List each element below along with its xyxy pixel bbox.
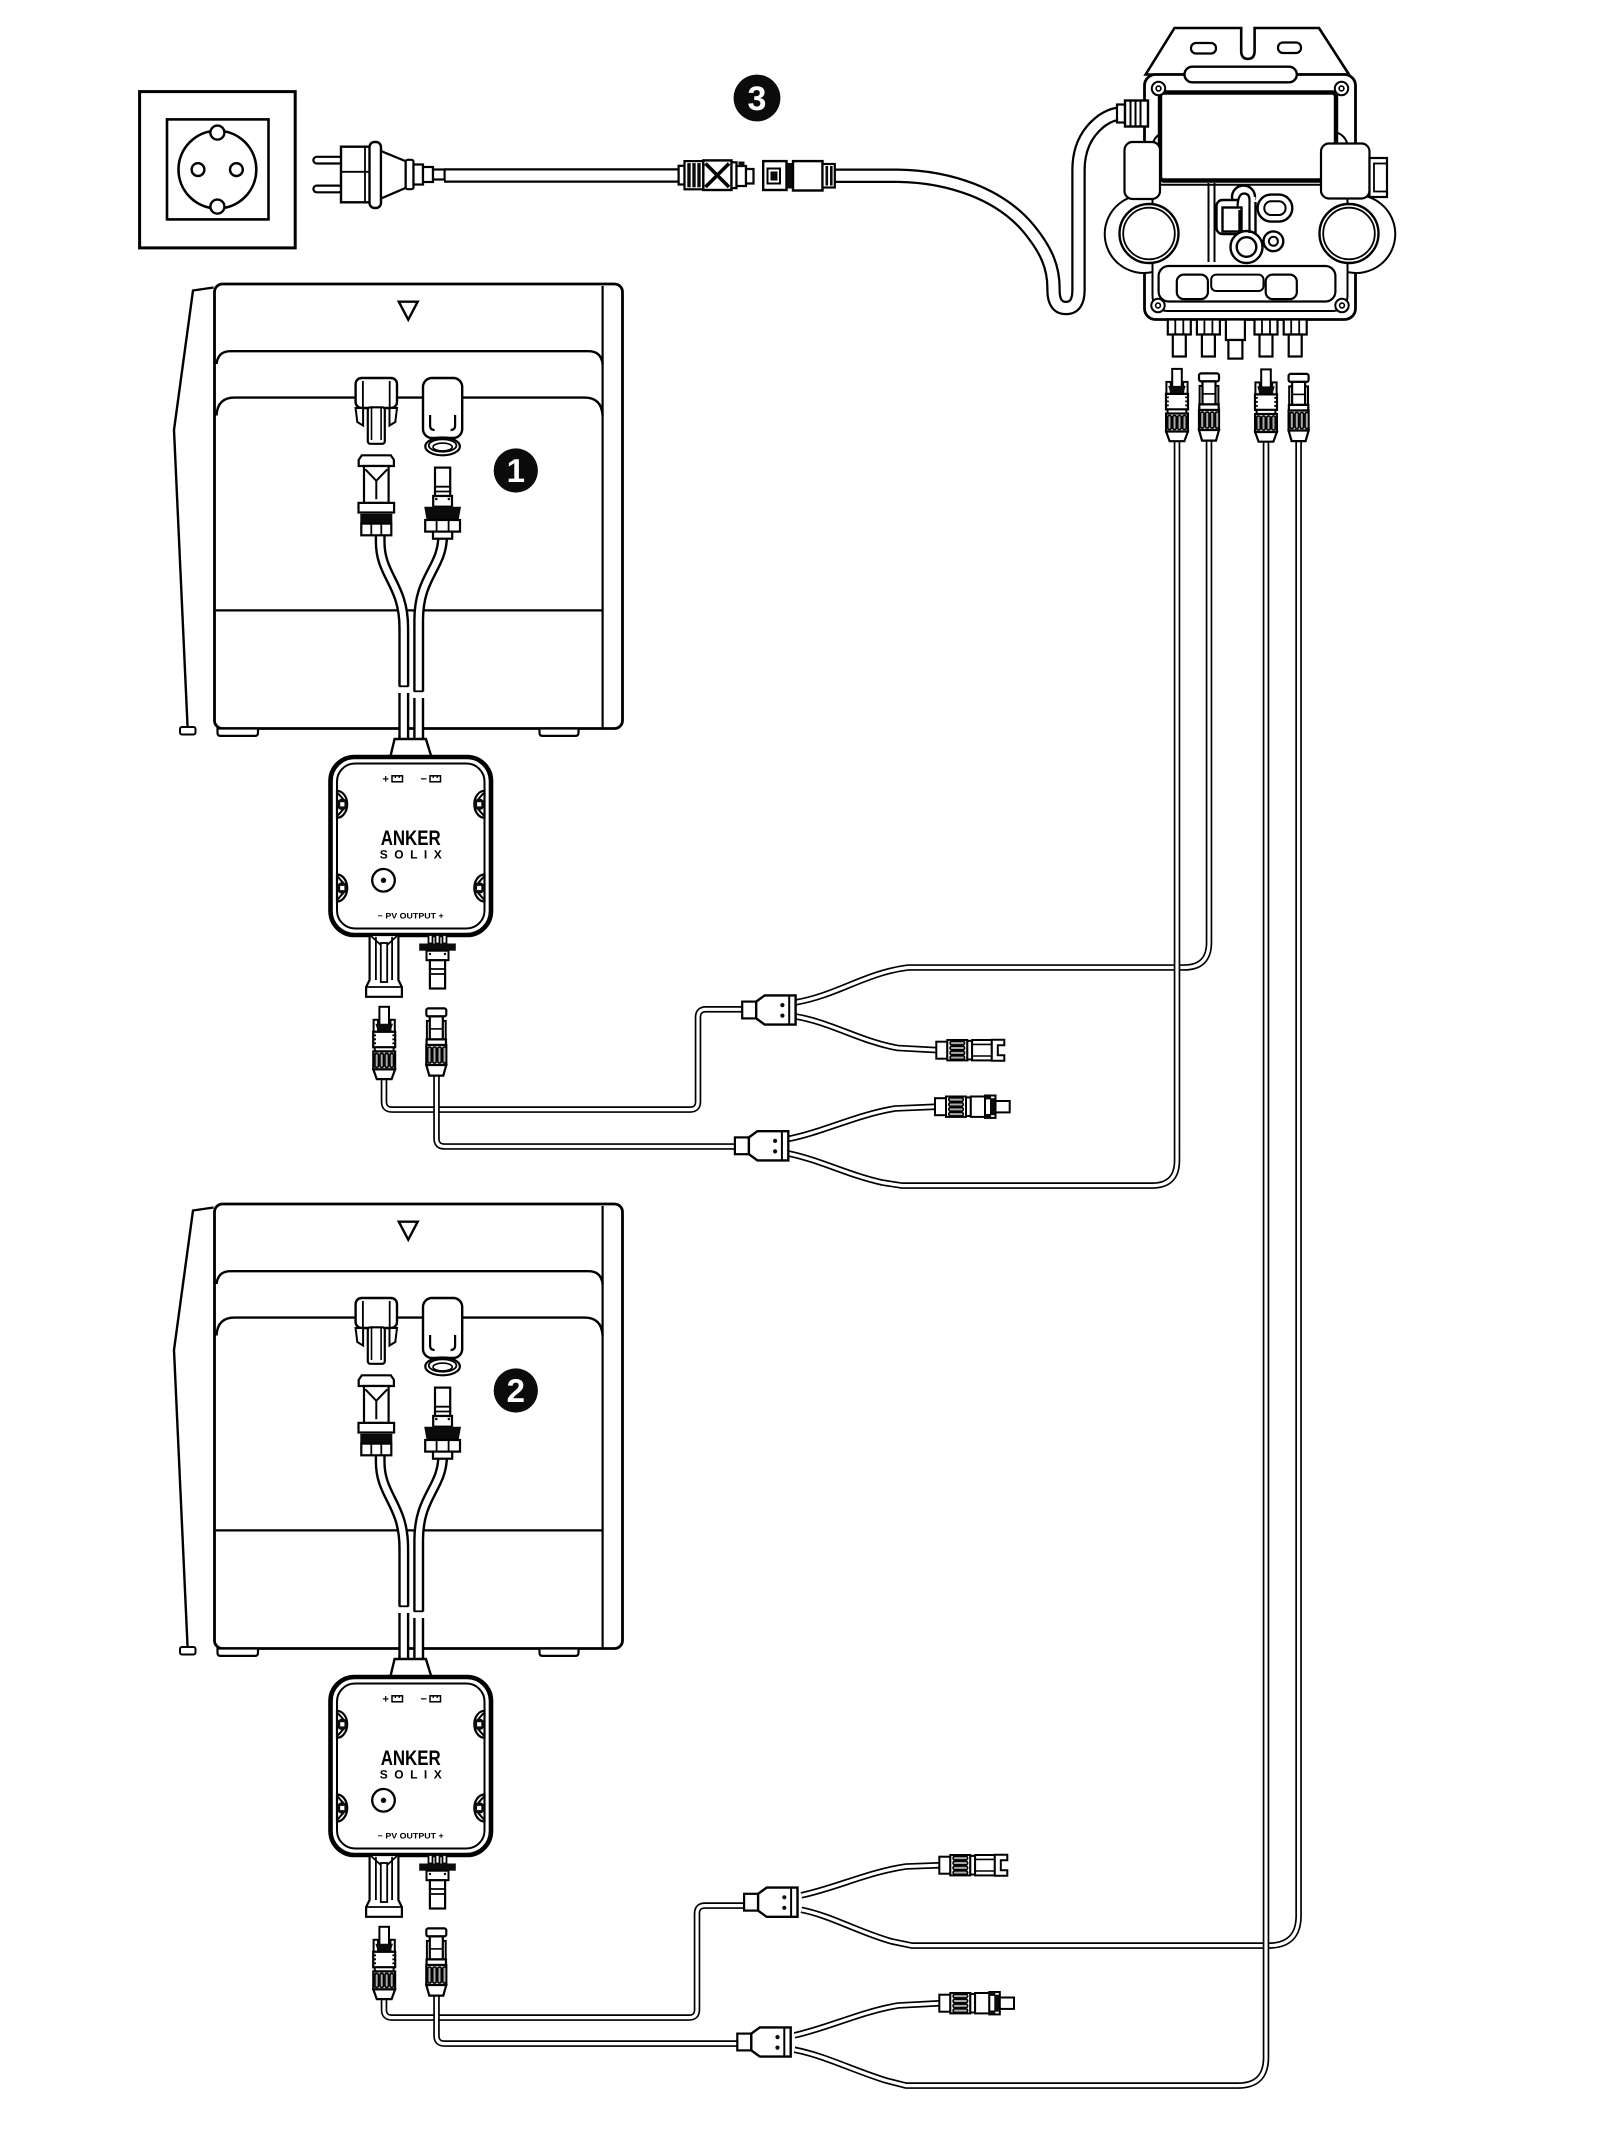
plug body bbox=[341, 147, 370, 203]
inverter input connector 2 bbox=[1199, 373, 1219, 440]
svg-text:2: 2 bbox=[507, 1372, 525, 1409]
svg-text:1: 1 bbox=[507, 452, 525, 489]
battery 1 MC4 plug female bbox=[426, 1008, 446, 1075]
MC4 coupler 3 bbox=[939, 1855, 1007, 1876]
left boss bulge bbox=[1105, 195, 1153, 273]
AC connector pair (item 3) male half bbox=[679, 160, 754, 190]
wire: Y3 upper branch to MC4 coupler 3 bbox=[801, 1865, 941, 1895]
MC4 coupler 2 bbox=[935, 1095, 1010, 1118]
wire: Y4 upper branch to MC4 coupler 4 bbox=[795, 2003, 942, 2035]
socket outer plate bbox=[140, 92, 296, 248]
right side tab bbox=[1370, 158, 1388, 197]
battery 1 MC4 plug male bbox=[373, 1007, 395, 1079]
wire: battery1 right MC4 to splitter Y2 bbox=[437, 1073, 738, 1147]
plug prongs bbox=[313, 157, 342, 164]
socket inner plate bbox=[167, 119, 269, 219]
wire: Y4 lower branch up to inverter connector 3 bbox=[795, 440, 1267, 2086]
AC cable plug-to-connector bbox=[444, 168, 678, 183]
inverter body bbox=[1145, 75, 1356, 320]
microinverter bbox=[1105, 28, 1396, 359]
AC connector pair (item 3) female half bbox=[763, 161, 835, 190]
battery 1 assembly bbox=[174, 284, 623, 997]
inverter casting outline bbox=[1153, 132, 1348, 311]
wire: battery2 left MC4 to splitter Y3 bbox=[384, 1906, 746, 2018]
socket pin holes bbox=[192, 163, 205, 176]
AC plug bbox=[313, 142, 444, 208]
inverter output stubs bbox=[1168, 320, 1307, 359]
plug flange bbox=[370, 142, 382, 208]
battery 2 assembly bbox=[174, 1204, 623, 1917]
left boss circle bbox=[1120, 204, 1179, 263]
oval port bbox=[1258, 195, 1293, 222]
left side recess bbox=[1125, 142, 1161, 199]
label 2 bbox=[494, 1368, 538, 1412]
corner screws bbox=[1151, 82, 1348, 312]
wire: Y1 upper branch up to inverter connector 2 bbox=[796, 440, 1209, 1002]
wire: Y1 lower branch to MC4 coupler 1 bbox=[796, 1017, 938, 1051]
wire: battery1 left MC4 to splitter Y1 bbox=[384, 1009, 744, 1109]
wire: Y2 upper branch to MC4 coupler 2 bbox=[788, 1107, 937, 1139]
inverter label plate bbox=[1160, 93, 1336, 181]
AC cable gland bbox=[1117, 105, 1125, 123]
MC4 coupler 4 bbox=[939, 1992, 1014, 2015]
MC4 coupler 1 bbox=[936, 1040, 1004, 1061]
socket recess circle bbox=[179, 131, 257, 209]
battery 2 MC4 plug female bbox=[426, 1928, 446, 1995]
bottom tray bbox=[1159, 266, 1336, 302]
splitter Y2 bbox=[735, 1131, 788, 1160]
keyhole latch bbox=[1232, 186, 1255, 209]
wall socket bbox=[140, 92, 296, 248]
inverter mounting bracket bbox=[1146, 28, 1349, 75]
right side recess bbox=[1321, 144, 1370, 199]
right boss circle bbox=[1320, 204, 1379, 263]
splitter Y1 bbox=[742, 995, 795, 1024]
small ring bbox=[1264, 231, 1284, 251]
splitter Y3 bbox=[744, 1888, 797, 1917]
svg-text:3: 3 bbox=[748, 80, 767, 118]
inverter input connector 3 bbox=[1255, 369, 1277, 441]
splitter Y4 bbox=[737, 2027, 790, 2056]
inverter input connector 4 bbox=[1289, 374, 1309, 441]
inverter input connector 1 bbox=[1166, 369, 1188, 441]
label 3 bbox=[734, 75, 781, 122]
wire: battery2 right MC4 to splitter Y4 bbox=[437, 1993, 740, 2044]
wire: Y2 lower branch up to inverter connector 1 bbox=[788, 440, 1177, 1186]
plug strain relief bbox=[381, 151, 406, 199]
battery 2 MC4 plug male bbox=[373, 1927, 395, 1999]
wire: Y3 lower branch up to inverter connector 4 bbox=[801, 440, 1298, 1946]
bracket slots bbox=[1191, 43, 1216, 54]
right boss bulge bbox=[1348, 195, 1396, 273]
inverter top handle bbox=[1185, 67, 1297, 83]
AC cable connector-to-inverter bbox=[835, 114, 1130, 308]
label 1 bbox=[494, 448, 538, 492]
